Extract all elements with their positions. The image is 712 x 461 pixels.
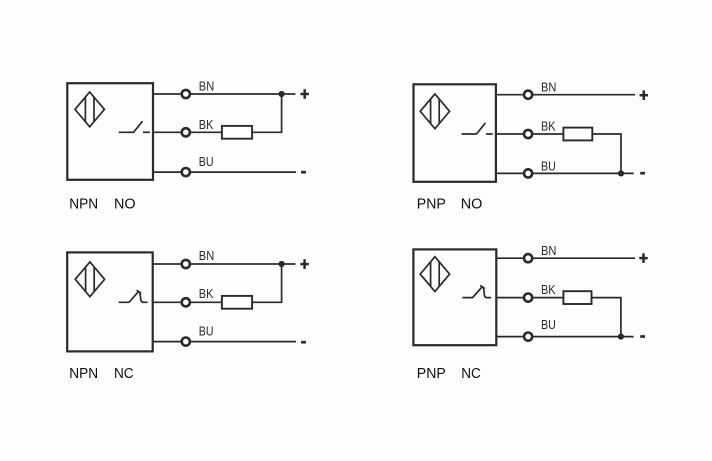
wire BU to minus terminal — [191, 341, 296, 343]
load resistor — [222, 296, 252, 309]
junction dot — [279, 91, 285, 97]
wire BU from box to terminal — [496, 336, 523, 338]
sensor body box PNP NO — [414, 84, 496, 182]
terminal circle BK — [182, 128, 190, 136]
switch NC left lead — [462, 286, 483, 298]
wire BK from box to terminal — [496, 297, 523, 299]
svg-text:BU: BU — [199, 154, 214, 169]
svg-text:BU: BU — [541, 158, 556, 173]
wire BN from box to terminal — [496, 94, 523, 96]
load resistor — [222, 126, 252, 139]
terminal circle BK — [524, 294, 532, 302]
terminal circle BK — [182, 298, 190, 306]
plus terminal — [300, 259, 308, 269]
plus terminal — [639, 253, 647, 263]
switch NC cross tick — [480, 286, 485, 289]
terminal circle BU — [524, 169, 532, 177]
sensor symbol diamond — [75, 92, 104, 127]
wire BK from box to terminal — [153, 131, 181, 133]
wire BU to minus terminal — [191, 171, 296, 173]
terminal circle BU — [182, 168, 190, 176]
sensor symbol right chord — [438, 262, 440, 287]
switch NC left lead — [119, 291, 140, 303]
sensor body box NPN NC — [67, 252, 153, 351]
wire BK to load resistor — [533, 133, 563, 135]
svg-text:BK: BK — [541, 118, 556, 133]
wire BU from box to terminal — [153, 171, 181, 173]
svg-text:NPN: NPN — [69, 197, 98, 213]
plus terminal — [640, 90, 648, 100]
svg-text:BN: BN — [199, 248, 214, 263]
sensor symbol diamond — [420, 94, 449, 129]
switch NO left lead — [462, 123, 486, 134]
svg-text:BU: BU — [541, 317, 556, 332]
wire BN to plus terminal — [191, 263, 295, 265]
svg-text:NO: NO — [461, 197, 483, 213]
svg-text:BK: BK — [199, 117, 214, 132]
wire BK to load resistor — [191, 131, 222, 133]
switch NC right lead — [483, 287, 491, 298]
wire BK to load resistor — [191, 301, 222, 303]
wire BU from box to terminal — [496, 172, 523, 174]
sensor symbol diamond — [420, 257, 449, 292]
sensor symbol left chord — [85, 267, 87, 292]
junction dot — [618, 334, 624, 340]
wire from resistor to junction — [252, 264, 282, 302]
load resistor — [563, 128, 592, 141]
sensor symbol left chord — [84, 97, 86, 122]
svg-text:BN: BN — [541, 243, 556, 258]
svg-text:NC: NC — [461, 366, 481, 382]
terminal circle BN — [524, 254, 532, 262]
svg-text:BK: BK — [199, 286, 214, 301]
svg-text:NO: NO — [114, 197, 136, 213]
wire from resistor to junction — [592, 134, 621, 173]
svg-text:BN: BN — [541, 79, 556, 94]
minus terminal — [640, 172, 645, 175]
sensor body box NPN NO — [67, 83, 153, 180]
switch NO fixed contact dash — [143, 131, 150, 133]
terminal circle BK — [524, 130, 532, 138]
wire BN from box to terminal — [153, 263, 181, 265]
sensor symbol diamond — [75, 262, 104, 297]
junction dot — [618, 170, 624, 176]
wire BU to minus terminal — [533, 172, 633, 174]
svg-text:PNP: PNP — [417, 366, 446, 382]
wire BU to minus terminal — [533, 336, 633, 338]
switch NO fixed contact dash — [486, 133, 493, 135]
wire from resistor to junction — [592, 298, 621, 337]
wire BN to plus terminal — [191, 93, 295, 95]
sensor body box PNP NC — [413, 249, 496, 345]
wire BK from box to terminal — [153, 301, 181, 303]
wire BN to plus terminal — [533, 94, 635, 96]
minus terminal — [301, 341, 306, 344]
wire BN to plus terminal — [533, 257, 635, 259]
sensor symbol right chord — [93, 97, 95, 122]
switch NC cross tick — [137, 290, 142, 293]
sensor symbol right chord — [93, 267, 95, 292]
plus terminal — [301, 89, 309, 99]
terminal circle BN — [524, 91, 532, 99]
wire BU from box to terminal — [153, 341, 181, 343]
sensor symbol left chord — [430, 262, 432, 287]
wire BN from box to terminal — [496, 257, 523, 259]
switch NO left lead — [119, 121, 143, 132]
terminal circle BU — [182, 338, 190, 346]
svg-text:NPN: NPN — [69, 366, 98, 382]
minus terminal — [301, 171, 306, 174]
minus terminal — [640, 335, 645, 338]
wire BK from box to terminal — [496, 133, 523, 135]
svg-text:BK: BK — [541, 282, 556, 297]
terminal circle BU — [524, 333, 532, 341]
terminal circle BN — [182, 260, 190, 268]
wire BK to load resistor — [533, 297, 563, 299]
junction dot — [279, 261, 285, 267]
svg-text:NC: NC — [114, 366, 134, 382]
terminal circle BN — [182, 90, 190, 98]
svg-text:BU: BU — [199, 324, 214, 339]
wire from resistor to junction — [252, 94, 282, 132]
switch NC right lead — [140, 292, 148, 303]
svg-text:PNP: PNP — [417, 197, 446, 213]
sensor symbol left chord — [430, 99, 432, 124]
sensor symbol right chord — [438, 99, 440, 124]
svg-text:BN: BN — [199, 79, 214, 94]
wire BN from box to terminal — [153, 93, 181, 95]
load resistor — [563, 291, 591, 304]
